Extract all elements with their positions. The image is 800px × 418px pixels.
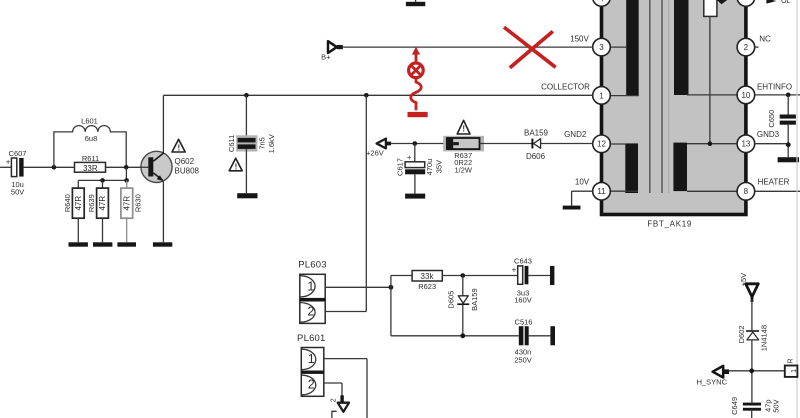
svg-text:1.6kV: 1.6kV [267,134,276,153]
svg-text:!: ! [462,125,465,134]
svg-text:1: 1 [599,91,604,100]
svg-text:1: 1 [307,280,314,294]
svg-text:2: 2 [308,378,315,392]
svg-text:C643: C643 [514,256,532,265]
svg-text:2: 2 [744,43,749,52]
svg-text:2: 2 [307,304,314,318]
svg-text:1N4148: 1N4148 [759,325,768,351]
svg-text:+: + [407,153,412,162]
svg-text:3: 3 [599,43,604,52]
svg-text:47R: 47R [74,196,83,211]
svg-text:C617: C617 [395,158,404,176]
svg-text:OL: OL [781,0,790,5]
svg-text:47R: 47R [123,196,132,211]
svg-text:7n5: 7n5 [258,137,267,150]
svg-text:13: 13 [741,140,750,149]
svg-text:470u: 470u [425,159,434,176]
svg-text:R639: R639 [87,194,96,212]
svg-text:150V: 150V [570,34,589,43]
svg-text:10: 10 [741,91,750,100]
svg-text:BU808: BU808 [175,167,200,176]
svg-text:250V: 250V [514,356,532,365]
svg-text:GND3: GND3 [757,130,780,139]
svg-text:EHTINFO: EHTINFO [757,82,792,91]
svg-text:+: + [512,265,517,274]
svg-text:8: 8 [744,187,749,196]
svg-text:35V: 35V [434,160,443,173]
svg-text:H_SYNC: H_SYNC [697,377,728,386]
svg-text:C649: C649 [730,397,739,415]
svg-text:NC: NC [759,34,771,43]
svg-text:!: ! [235,162,238,171]
svg-text:33R: 33R [83,164,98,173]
svg-text:6u8: 6u8 [85,134,98,143]
svg-text:C650: C650 [767,110,776,128]
svg-text:COLLECTOR: COLLECTOR [541,83,590,92]
svg-text:!: ! [177,144,180,153]
svg-text:160V: 160V [514,296,532,305]
svg-text:R611: R611 [82,154,99,163]
svg-text:10V: 10V [575,177,590,186]
svg-text:+: + [6,157,11,166]
svg-text:GND2: GND2 [564,130,587,139]
svg-text:1: 1 [791,369,798,373]
svg-text:HEATER: HEATER [758,177,790,186]
svg-text:L601: L601 [81,117,98,126]
svg-text:PL603: PL603 [298,260,326,271]
svg-text:D606: D606 [526,152,546,161]
svg-text:R: R [788,358,795,363]
svg-text:12: 12 [597,140,606,149]
svg-text:BA159: BA159 [524,128,549,137]
svg-text:D605: D605 [446,291,455,309]
svg-text:47R: 47R [98,196,107,211]
svg-text:B+: B+ [321,52,331,61]
svg-text:PL601: PL601 [297,333,325,344]
svg-text:50V: 50V [771,399,780,412]
svg-text:4: 4 [599,0,604,3]
svg-text:11: 11 [597,187,606,196]
svg-text:D602: D602 [737,325,746,343]
svg-text:Q602: Q602 [175,157,195,166]
svg-text:2: 2 [330,398,337,402]
svg-text:1: 1 [308,352,315,366]
svg-text:33k: 33k [421,272,435,281]
svg-text:FBT_AK19: FBT_AK19 [647,219,692,228]
svg-text:R623: R623 [418,282,436,291]
svg-text:C611: C611 [227,135,236,152]
svg-text:C607: C607 [9,149,27,158]
svg-text:BA159: BA159 [470,288,479,311]
svg-text:1/2W: 1/2W [454,166,472,175]
svg-text:C516: C516 [515,317,533,326]
svg-text:+26V: +26V [366,149,384,158]
svg-text:R630: R630 [133,194,142,212]
svg-text:R640: R640 [63,194,72,212]
svg-text:50V: 50V [11,188,24,197]
